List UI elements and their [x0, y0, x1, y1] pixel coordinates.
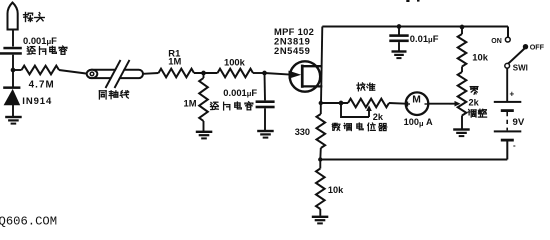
bottom rail — [320, 159, 507, 161]
potentiometer 2k (zero adjust) — [461, 67, 463, 73]
drain stub — [303, 65, 323, 67]
ground (C2) — [257, 130, 274, 132]
svg-text:ON: ON — [491, 38, 502, 45]
svg-text:10k: 10k — [472, 51, 488, 62]
source junction dot — [319, 101, 323, 105]
top supply rail — [322, 26, 508, 28]
junction dot C3 — [397, 24, 402, 29]
wiper arrow (cal pot) — [368, 110, 370, 117]
wire C2 to ground — [264, 108, 266, 130]
label 瓷片电容 — [27, 47, 35, 55]
wire pot to meter — [389, 102, 406, 105]
svg-text:100μ A: 100μ A — [404, 117, 433, 128]
wiper return bracket — [341, 103, 369, 117]
wire gate — [265, 73, 291, 75]
svg-text:1M: 1M — [168, 55, 181, 66]
wire pot to ground — [461, 116, 463, 129]
ground (left) — [5, 116, 22, 118]
resistor 330 — [320, 103, 322, 114]
switch SW1 arm — [508, 49, 525, 65]
meter + sign — [405, 103, 410, 105]
resistor 10k (top right) — [461, 27, 463, 35]
svg-text:2k: 2k — [469, 98, 480, 108]
wire switch to battery — [506, 68, 508, 101]
cropped text remnant top — [406, 0, 409, 2]
switch pivot — [505, 63, 510, 68]
svg-text:1M: 1M — [184, 98, 197, 109]
junction dot gate node — [262, 71, 267, 76]
wire battery to bottom rail — [506, 142, 508, 160]
coax cable body — [87, 70, 143, 78]
svg-text:10k: 10k — [328, 185, 344, 195]
wire source node to pot — [321, 102, 348, 104]
svg-text:SWI: SWI — [513, 64, 528, 73]
rail corner down to ON — [507, 27, 509, 38]
svg-text:Q606.COM: Q606.COM — [0, 215, 57, 229]
resistor 10k (bottom) — [319, 160, 321, 169]
label 同轴线 — [99, 91, 106, 99]
wire coax to R1 — [143, 72, 159, 75]
ground (zero pot) — [453, 128, 470, 130]
junction dot pot left — [339, 101, 344, 106]
wire node to C2 — [264, 73, 267, 100]
svg-text:0.001μF: 0.001μF — [223, 87, 257, 98]
wire node to diode — [12, 70, 14, 87]
coax break gap — [107, 60, 129, 88]
junction dot 10k — [460, 25, 465, 30]
label 零 — [470, 87, 478, 95]
transistor Q1 circle — [290, 61, 320, 91]
ground (C3) — [392, 50, 407, 52]
ON terminal — [505, 37, 510, 42]
svg-text:0.001μF: 0.001μF — [23, 35, 57, 46]
capacitor C2 plates — [256, 100, 275, 103]
wire 1M to ground — [203, 121, 205, 131]
resistor R1 — [159, 69, 195, 78]
capacitor C1 0.001uF plates — [3, 47, 21, 50]
node junction dot — [11, 68, 16, 73]
label 探头 — [24, 13, 33, 22]
wire probe to C1 — [12, 30, 14, 47]
wire meter to wiper — [428, 103, 449, 105]
junction dot — [201, 71, 206, 76]
coax end cap — [87, 70, 98, 78]
label 校准 — [357, 83, 365, 91]
svg-text:0.01μF: 0.01μF — [410, 33, 439, 44]
diode IN914 cathode bar — [3, 86, 20, 89]
meter - sign — [425, 103, 429, 105]
wiper arrow (zero pot) — [449, 103, 456, 105]
svg-text:4.7M: 4.7M — [29, 79, 55, 90]
wire R1 to node — [194, 72, 218, 74]
OFF terminal dot — [523, 44, 528, 49]
meter M circle — [406, 92, 429, 115]
drain/source vertical wire — [321, 27, 322, 104]
svg-text:330: 330 — [295, 127, 310, 137]
ground (bottom 10k) — [312, 216, 329, 218]
source stub — [303, 85, 323, 87]
svg-text:2N5459: 2N5459 — [274, 45, 310, 56]
resistor 4.7M — [22, 66, 60, 75]
wire node to R 4.7M — [13, 69, 22, 71]
svg-text:+: + — [510, 90, 515, 99]
bottom junction dot — [318, 157, 322, 161]
battery B1 9V plates — [494, 101, 522, 103]
svg-text:-: - — [513, 141, 516, 150]
wire C1 to node — [12, 55, 14, 71]
label 微调电位器 — [332, 123, 340, 130]
svg-text:M: M — [412, 94, 421, 105]
gate arrow — [289, 71, 302, 79]
potentiometer 2k calibrate — [348, 99, 389, 108]
diode IN914 triangle — [4, 89, 21, 105]
svg-text:IN914: IN914 — [22, 96, 52, 107]
coax break slashes — [106, 60, 121, 88]
channel bar — [301, 65, 304, 88]
svg-text:2k: 2k — [373, 112, 384, 122]
svg-text:100k: 100k — [224, 57, 246, 68]
label 瓷片电容 (C2) — [211, 102, 219, 109]
svg-text:9V: 9V — [513, 117, 525, 128]
svg-text:OFF: OFF — [530, 43, 545, 52]
wire 100k to gate node — [253, 72, 265, 74]
wire diode to ground — [12, 105, 14, 116]
ground (1M) — [196, 131, 213, 133]
probe tip — [8, 3, 18, 30]
capacitor C3 0.01uF — [398, 27, 400, 35]
resistor 100k — [218, 69, 254, 78]
label 调整 — [468, 110, 476, 118]
wire 4.7M to coax — [59, 70, 86, 74]
resistor 1M vertical — [203, 73, 205, 78]
